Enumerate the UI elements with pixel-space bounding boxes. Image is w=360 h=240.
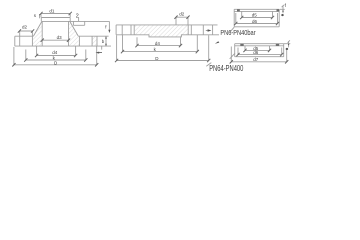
left flange ring top <box>15 35 109 37</box>
left flange bolt boss box <box>73 21 84 25</box>
left flange dim d3 <box>42 39 68 41</box>
middle flange plate bottom + raised face <box>116 35 213 37</box>
svg-text:s: s <box>34 13 37 18</box>
left flange hub hatch right <box>69 21 80 46</box>
labels <box>22 3 287 65</box>
middle flange b arrow shaft <box>206 25 219 35</box>
detail2 plate <box>235 44 284 57</box>
svg-text:d2: d2 <box>179 12 185 17</box>
left flange small left arrow below ring corner <box>96 52 100 54</box>
middle flange dim k <box>123 35 198 52</box>
svg-text:2: 2 <box>76 13 79 19</box>
detail2 f arrow marks <box>288 44 290 46</box>
middle flange hatch <box>135 25 188 35</box>
ticks d6 detail2 <box>236 53 283 56</box>
left flange hub taper left <box>34 21 42 36</box>
detail1 dim f <box>280 5 285 14</box>
svg-text:PN6-PN40bar: PN6-PN40bar <box>220 28 256 37</box>
middle flange bolt boss <box>176 19 188 25</box>
ticks d4 left flange <box>35 54 77 57</box>
left flange dim k <box>26 50 86 61</box>
detail1 gasket squares <box>237 9 240 11</box>
detail2 gasket squares <box>240 44 243 46</box>
middle flange corner arrow mark <box>215 41 219 44</box>
middle flange bolt hole right <box>188 25 203 35</box>
detail1 dim d6 <box>236 13 278 24</box>
left flange face line <box>42 20 110 22</box>
left flange f arrow down <box>108 30 110 33</box>
svg-text:b: b <box>102 39 105 44</box>
middle flange bolt hole left <box>122 25 134 35</box>
arrows and dark marks <box>96 9 290 53</box>
detail1 leader <box>230 27 235 32</box>
middle flange plate sides <box>116 25 213 35</box>
main texts <box>209 28 256 73</box>
ticks d7 detail2 <box>230 60 289 63</box>
left flange bore walls <box>42 21 68 46</box>
dimension end ticks <box>12 12 288 67</box>
ticks d6 detail1 <box>234 22 279 25</box>
left flange ring bottom <box>15 45 111 47</box>
svg-text:d1: d1 <box>49 9 55 14</box>
detail2 dim d7 <box>231 47 286 62</box>
detail2 dim f <box>284 40 291 47</box>
svg-text:d6: d6 <box>252 19 258 24</box>
ticks d2 left <box>18 29 34 32</box>
middle flange dim D <box>117 35 209 60</box>
ticks k middle <box>121 50 199 53</box>
left flange dim d1 <box>41 14 70 18</box>
ticks d2 middle <box>174 16 189 19</box>
ticks d1 <box>39 12 71 15</box>
left flange bolt hole left <box>20 36 33 46</box>
svg-text:PN64-PN400: PN64-PN400 <box>209 64 244 73</box>
svg-text:d7: d7 <box>253 57 259 62</box>
middle flange dim d4 <box>137 37 181 45</box>
left flange dim d4 <box>37 46 76 55</box>
ticks d3 <box>41 39 71 42</box>
middle flange plate top <box>116 24 213 26</box>
left flange hub hatch left <box>33 21 43 46</box>
detail2 dim d5 <box>245 46 270 51</box>
left flange ring sides <box>15 36 97 46</box>
ticks k left flange <box>24 58 87 61</box>
detail2 dim d6 <box>238 48 282 55</box>
left flange dim b vertical <box>102 36 106 49</box>
svg-text:d2: d2 <box>22 25 28 30</box>
ticks d4 middle <box>135 44 182 47</box>
detail1 plate <box>234 9 279 27</box>
left flange leader of 2 <box>78 17 80 21</box>
left flange s tick <box>39 14 41 18</box>
svg-text:d5: d5 <box>252 13 258 18</box>
left flange pipe stub <box>41 18 70 22</box>
svg-text:d3: d3 <box>57 35 63 40</box>
svg-text:d6: d6 <box>253 50 259 55</box>
left flange dim d2 <box>19 31 33 36</box>
svg-text:d4: d4 <box>155 41 161 46</box>
ticks d5 detail1 <box>240 16 274 19</box>
detail1 f arrow marks <box>282 10 284 12</box>
left flange dim D <box>14 46 97 65</box>
ticks d5 detail2 <box>243 49 271 52</box>
detail1 dim d5 <box>242 11 273 17</box>
left flange ring hatch right outer <box>92 36 97 46</box>
middle flange b arrow right <box>208 29 212 32</box>
detail2 leader <box>206 53 235 66</box>
left flange hub taper right <box>70 21 78 36</box>
svg-text:f: f <box>285 3 287 8</box>
ticks D left flange <box>12 63 98 66</box>
left flange dim f vertical <box>108 21 110 32</box>
svg-text:f: f <box>105 24 107 29</box>
ticks D middle <box>115 59 210 62</box>
left flange b arrows <box>105 36 107 38</box>
left flange bolt hole right <box>79 36 92 46</box>
middle flange dim d2 <box>176 17 188 19</box>
